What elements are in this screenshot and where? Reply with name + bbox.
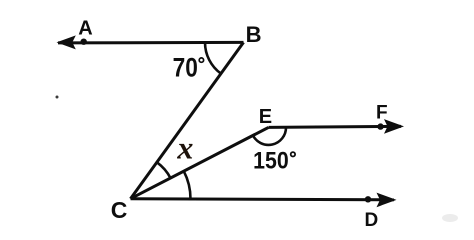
svg-text:A: A [78,17,92,39]
svg-text:F: F [376,103,388,124]
svg-text:x: x [176,130,193,166]
svg-text:70: 70 [173,53,198,83]
svg-text:D: D [365,210,379,231]
svg-text:C: C [111,197,128,223]
svg-text:E: E [259,106,272,128]
svg-text:150: 150 [253,146,289,174]
svg-text:B: B [246,22,262,47]
